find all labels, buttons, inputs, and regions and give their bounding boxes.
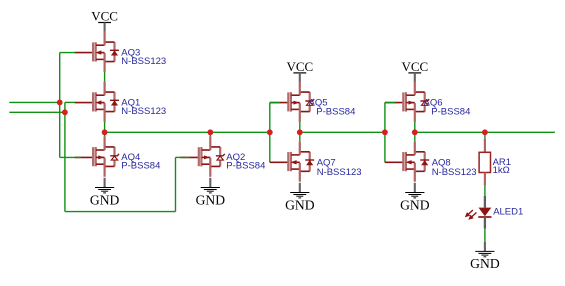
wire AQ6 source to AQ8 drain [414, 122, 416, 141]
ground GND1 [90, 178, 120, 208]
transistor AQ2 P-BSS84 [180, 136, 224, 176]
junction node AR1 top [482, 129, 488, 135]
transistor AQ5 P-BSS84 [270, 82, 314, 122]
wire up to AQ2 gate [175, 157, 177, 211]
LED ALED1 emission arrow 1 [465, 210, 473, 217]
transistor AQ1 N-BSS123 [75, 82, 119, 122]
junction node stage3 gates [267, 129, 273, 135]
wire bus segment 3 [415, 131, 555, 133]
transistor AQ7 N-BSS123 [270, 141, 314, 181]
junction node stage1 output [102, 129, 108, 135]
wire input A [9, 101, 59, 103]
wire gate bus vertical left [59, 53, 61, 158]
LED ALED1 cathode pin [484, 217, 486, 229]
transistor AQ6 P-BSS84 [385, 82, 429, 122]
wire AQ1 source to AQ4 drain [104, 122, 106, 136]
wire bus segment 1 [105, 131, 270, 133]
svg-text:P-BSS84: P-BSS84 [226, 161, 265, 172]
junction node stage4 gates [382, 129, 388, 135]
resistor AR1 bottom pin [484, 173, 486, 186]
LED ALED1 anode pin [484, 196, 486, 208]
svg-text:N-BSS123: N-BSS123 [121, 56, 166, 67]
junction node AQ2 drain [207, 129, 213, 135]
wire stage4 gate vertical [384, 103, 386, 163]
wire to AQ6 gate [385, 102, 395, 104]
wire bus segment 2 [300, 131, 385, 133]
resistor AR1 body [479, 152, 490, 172]
svg-text:1kΩ: 1kΩ [493, 165, 510, 176]
wire to AQ3 gate [60, 52, 76, 54]
LED ALED1 body [479, 208, 492, 217]
svg-text:P-BSS84: P-BSS84 [121, 161, 160, 172]
ground GND5 [470, 242, 500, 271]
svg-text:N-BSS123: N-BSS123 [317, 167, 362, 178]
wire AQ3 source to AQ1 drain [104, 72, 106, 82]
wire input B vertical [64, 102, 66, 211]
wire to AQ4 gate [60, 156, 81, 158]
junction node stage4 output [412, 129, 418, 135]
power VCC net 3 [286, 59, 313, 82]
junction node input A [57, 100, 63, 106]
svg-text:P-BSS84: P-BSS84 [431, 107, 470, 118]
svg-text:N-BSS123: N-BSS123 [432, 167, 477, 178]
ground GND2 [196, 178, 226, 208]
svg-text:P-BSS84: P-BSS84 [316, 107, 355, 118]
wire input B [9, 111, 65, 113]
transistor AQ3 N-BSS123 [75, 32, 119, 72]
LED ALED1 cathode bar [478, 216, 491, 218]
wire LED cathode to GND [484, 228, 486, 242]
wire bottom horizontal [65, 211, 176, 213]
wire to AQ2 gate [176, 156, 190, 158]
LED ALED1 emission arrow 2 [468, 213, 476, 220]
ground GND3 [285, 183, 315, 213]
wire stage3 gate vertical [269, 103, 271, 163]
resistor AR1 top pin [484, 139, 486, 153]
power VCC net 4 [401, 59, 428, 82]
svg-text:ALED1: ALED1 [493, 207, 523, 218]
wire to AR1 top [484, 132, 486, 139]
transistor AQ8 N-BSS123 [385, 141, 429, 181]
transistor AQ4 P-BSS84 [75, 136, 119, 176]
wire AQ2 drain stub [209, 132, 211, 136]
wire input B to AQ1 gate [65, 101, 75, 103]
wire AQ5 source to AQ7 drain [299, 122, 301, 141]
junction node input B [62, 109, 68, 115]
wire to AQ5 gate [270, 102, 280, 104]
power VCC net 1 [91, 9, 118, 32]
wire AR1 bottom to LED anode [484, 185, 486, 196]
junction node stage3 output [297, 129, 303, 135]
svg-text:N-BSS123: N-BSS123 [121, 106, 166, 117]
ground GND4 [400, 183, 430, 213]
